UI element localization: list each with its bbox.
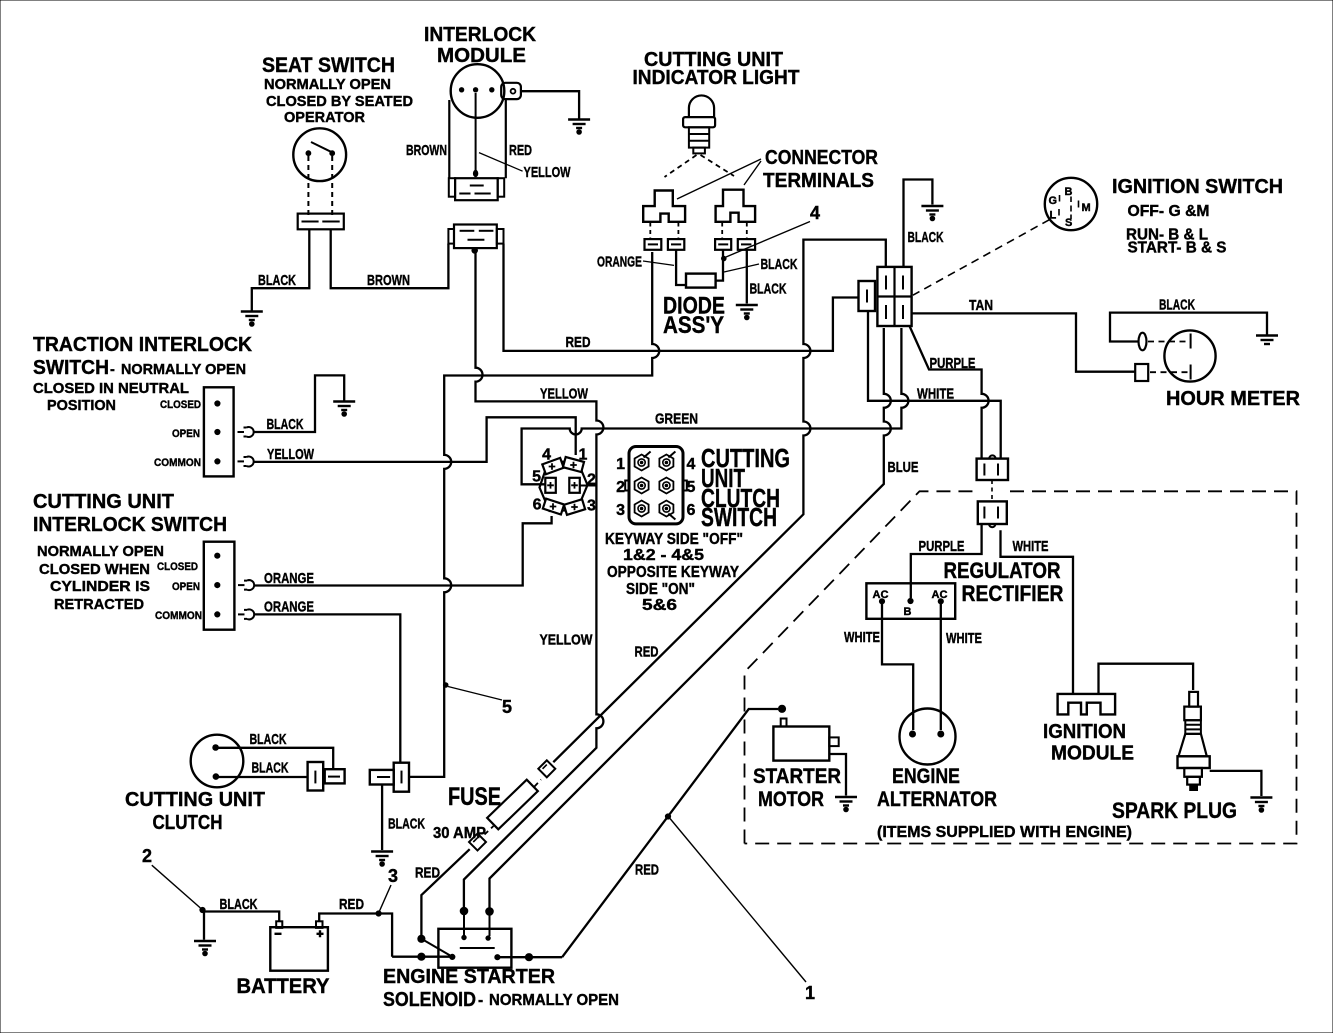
- ground ignition black: [921, 206, 943, 220]
- connector terminal callout lines: [677, 159, 761, 199]
- cutting interlock open terminal: [238, 584, 245, 586]
- wire brown seat to module: [331, 229, 449, 288]
- svg-text:CONNECTOR: CONNECTOR: [765, 146, 878, 169]
- svg-text:NORMALLY OPEN: NORMALLY OPEN: [37, 544, 164, 560]
- svg-text:RECTIFIER: RECTIFIER: [962, 581, 1064, 606]
- spark plug E1: [1189, 692, 1198, 707]
- svg-text:ENGINE STARTER: ENGINE STARTER: [383, 965, 555, 988]
- clutch switch pin 4: [659, 455, 673, 471]
- svg-text:BATTERY: BATTERY: [237, 974, 330, 998]
- svg-text:2: 2: [616, 479, 625, 496]
- svg-text:ENGINE: ENGINE: [892, 764, 960, 788]
- module yellow center lead: [475, 93, 477, 171]
- harness clutch connector tall: [394, 763, 409, 792]
- svg-text:1: 1: [616, 456, 625, 473]
- svg-text:NORMALLY OPEN: NORMALLY OPEN: [264, 77, 391, 93]
- wire black diode to ground: [746, 250, 748, 304]
- bulb dashed leads: [665, 155, 697, 177]
- svg-text:RED: RED: [339, 896, 364, 913]
- wire starter motor to ground: [829, 754, 846, 796]
- hex petal 3: [564, 499, 585, 515]
- module connector box upper: [455, 178, 498, 200]
- svg-text:ORANGE: ORANGE: [264, 570, 314, 587]
- svg-text:30 AMP: 30 AMP: [433, 825, 486, 842]
- wire white regulator right AC to alternator: [940, 604, 942, 730]
- svg-text:PURPLE: PURPLE: [930, 355, 976, 372]
- dashed callout ignition switch to connector: [913, 220, 1050, 296]
- svg-text:OPEN: OPEN: [172, 428, 200, 440]
- svg-text:INTERLOCK SWITCH: INTERLOCK SWITCH: [33, 513, 227, 536]
- svg-text:BLACK: BLACK: [388, 816, 425, 833]
- svg-text:(ITEMS SUPPLIED WITH ENGINE): (ITEMS SUPPLIED WITH ENGINE): [877, 824, 1132, 841]
- svg-text:CLOSED: CLOSED: [160, 399, 201, 411]
- svg-text:NORMALLY OPEN: NORMALLY OPEN: [121, 362, 246, 378]
- harness clutch connector small: [370, 770, 394, 785]
- traction interlock switch S1 body: [204, 387, 234, 476]
- svg-text:KEYWAY SIDE "OFF": KEYWAY SIDE "OFF": [605, 531, 743, 548]
- wire black harness connector to ground: [381, 785, 383, 851]
- dashed box items supplied with engine: [745, 491, 975, 843]
- hex petal 1: [563, 457, 584, 472]
- svg-text:BLACK: BLACK: [258, 272, 296, 289]
- svg-text:IGNITION SWITCH: IGNITION SWITCH: [1112, 175, 1283, 198]
- svg-text:BLACK: BLACK: [750, 281, 787, 298]
- pin box 1 orange: [645, 239, 662, 250]
- svg-text:INTERLOCK: INTERLOCK: [424, 24, 537, 46]
- wire green run: [522, 328, 909, 484]
- svg-text:CLOSED: CLOSED: [157, 561, 198, 573]
- ignition connector block: [877, 267, 911, 326]
- pin box 2: [668, 239, 684, 250]
- svg-text:RED: RED: [635, 644, 659, 661]
- svg-text:NORMALLY OPEN: NORMALLY OPEN: [489, 992, 619, 1009]
- diode assy D1: [686, 274, 716, 288]
- svg-text:SWITCH: SWITCH: [701, 502, 777, 532]
- svg-text:POSITION: POSITION: [47, 398, 116, 414]
- ground hour meter: [1256, 336, 1278, 345]
- wire yellow module run: [476, 253, 604, 480]
- ground battery: [194, 941, 216, 955]
- svg-text:CUTTING UNIT: CUTTING UNIT: [125, 788, 265, 811]
- ground interlock module: [568, 120, 590, 134]
- svg-text:BLACK: BLACK: [220, 896, 258, 913]
- wire white regulator left AC to alternator: [882, 604, 913, 730]
- svg-text:RED: RED: [509, 142, 532, 159]
- svg-text:YELLOW: YELLOW: [540, 386, 589, 403]
- wire spark plug to ground: [1210, 771, 1262, 796]
- svg-text:BROWN: BROWN: [406, 142, 447, 159]
- ground harness connector: [371, 852, 393, 866]
- clutch connector tall: [308, 762, 324, 791]
- wire black clutch upper: [218, 748, 333, 769]
- svg-text:G: G: [1049, 195, 1058, 207]
- svg-text:YELLOW: YELLOW: [267, 446, 315, 463]
- clutch switch pin 5: [659, 478, 673, 494]
- svg-text:WHITE: WHITE: [1013, 538, 1049, 555]
- indicator light bulb DS1: [689, 95, 714, 117]
- svg-text:WHITE: WHITE: [844, 629, 880, 646]
- svg-text:B: B: [1065, 186, 1073, 198]
- callout 3: [380, 885, 392, 911]
- svg-text:ORANGE: ORANGE: [597, 254, 642, 271]
- clutch switch pin 2: [635, 478, 649, 494]
- wire black clutch lower: [219, 776, 308, 778]
- svg-text:5: 5: [502, 697, 512, 717]
- wire black battery to ground: [204, 912, 279, 940]
- hour meter dashed links: [1148, 341, 1188, 343]
- engine connector lower half: [978, 501, 1007, 524]
- wire diode right leg: [716, 250, 723, 281]
- svg-text:GREEN: GREEN: [655, 411, 698, 428]
- svg-text:BLACK: BLACK: [252, 760, 289, 777]
- wire tan ignition to hour meter: [912, 313, 1135, 371]
- wire blue ignition to solenoid: [490, 328, 891, 908]
- wire yellow traction to clutch switch pin1: [253, 417, 576, 462]
- svg-text:REGULATOR: REGULATOR: [944, 558, 1061, 583]
- svg-text:FUSE: FUSE: [448, 783, 501, 811]
- svg-text:SWITCH: SWITCH: [33, 356, 109, 379]
- svg-text:-: -: [110, 362, 115, 378]
- svg-text:CLOSED IN NEUTRAL: CLOSED IN NEUTRAL: [33, 381, 189, 397]
- hour meter pin rect: [1135, 364, 1148, 381]
- hour meter pin oval: [1139, 333, 1147, 351]
- clutch switch pin 6: [659, 501, 673, 517]
- solenoid coil posts: [462, 935, 466, 939]
- svg-text:1: 1: [805, 983, 815, 1003]
- ground spark plug: [1250, 798, 1272, 812]
- svg-text:HOUR METER: HOUR METER: [1166, 387, 1300, 410]
- engine starter solenoid K1 box: [438, 929, 511, 968]
- wire orange diode run: [410, 252, 660, 777]
- seat switch connector: [298, 214, 344, 230]
- svg-text:L: L: [1050, 210, 1057, 222]
- wire white to ignition module: [1001, 530, 1074, 694]
- wire white ignition to engine connector: [868, 311, 1001, 459]
- svg-text:BLACK: BLACK: [761, 256, 798, 273]
- wire red fuse to ignition B: [553, 240, 886, 763]
- callout 2: [152, 865, 201, 908]
- solenoid right post wires: [495, 955, 500, 960]
- svg-text:3: 3: [388, 866, 398, 886]
- svg-text:RED: RED: [415, 865, 440, 882]
- hour meter M1 circle: [1164, 330, 1215, 381]
- wire purple to regulator B: [911, 524, 982, 598]
- svg-text:BLACK: BLACK: [1159, 297, 1195, 314]
- callout 4 to pin box 3: [722, 256, 727, 261]
- svg-text:ORANGE: ORANGE: [264, 599, 314, 616]
- callout 1 on red wire: [665, 814, 670, 819]
- ground starter motor: [835, 797, 857, 811]
- svg-text:BLACK: BLACK: [267, 416, 304, 433]
- svg-text:ALTERNATOR: ALTERNATOR: [877, 787, 997, 811]
- svg-text:SEAT SWITCH: SEAT SWITCH: [262, 54, 395, 77]
- svg-text:TERMINALS: TERMINALS: [763, 169, 874, 192]
- wire purple ignition to engine connector: [910, 326, 989, 459]
- svg-text:TRACTION INTERLOCK: TRACTION INTERLOCK: [33, 333, 252, 356]
- harness connector box below module: [454, 225, 497, 249]
- cutting unit interlock switch S2 body: [204, 542, 235, 630]
- ground seat switch: [241, 312, 263, 326]
- svg-text:3: 3: [587, 498, 596, 515]
- svg-text:BROWN: BROWN: [367, 272, 410, 289]
- svg-text:2: 2: [142, 846, 152, 866]
- regulator rectifier U2 box: [866, 583, 955, 619]
- fuse lead dashes: [485, 826, 494, 835]
- clutch connector small: [325, 769, 345, 783]
- svg-text:CLOSED BY SEATED: CLOSED BY SEATED: [266, 94, 413, 110]
- traction open terminal: [238, 431, 245, 433]
- svg-text:1&2 - 4&5: 1&2 - 4&5: [623, 547, 704, 564]
- wire black ignition block to ground: [904, 180, 933, 268]
- svg-text:OFF- G &M: OFF- G &M: [1128, 203, 1210, 220]
- svg-text:STARTER: STARTER: [753, 764, 841, 788]
- clutch switch side tabs: [625, 481, 629, 491]
- pin box 3: [715, 239, 731, 250]
- svg-text:COMMON: COMMON: [154, 457, 201, 469]
- svg-text:CLOSED WHEN: CLOSED WHEN: [39, 562, 150, 578]
- svg-text:RED: RED: [635, 862, 659, 879]
- hex petal 2: [569, 478, 580, 493]
- engine alternator G1 circle: [900, 709, 956, 765]
- callout 5 on orange wire: [443, 683, 448, 688]
- wire orange open to clutch switch pin6: [254, 516, 552, 586]
- svg-text:WHITE: WHITE: [946, 630, 982, 647]
- wire module tab to ground: [521, 91, 579, 118]
- wire red battery to solenoid: [319, 914, 392, 957]
- cutting interlock common terminal: [238, 613, 245, 615]
- svg-text:1: 1: [579, 447, 588, 464]
- terminal dashed stubs: [649, 223, 651, 239]
- svg-text:OPERATOR: OPERATOR: [284, 110, 366, 126]
- svg-text:BLACK: BLACK: [908, 229, 944, 246]
- svg-text:RED: RED: [566, 334, 591, 351]
- fuse terminal diamond lower: [469, 834, 486, 851]
- hex petal 6: [543, 499, 564, 515]
- svg-text:CUTTING UNIT: CUTTING UNIT: [33, 490, 174, 513]
- svg-text:6: 6: [533, 497, 542, 514]
- fuse terminal diamond upper: [538, 760, 555, 777]
- svg-text:OPEN: OPEN: [172, 581, 200, 593]
- wire clutch plug pin2 to yellow: [580, 485, 597, 487]
- wire red module run: [504, 244, 859, 351]
- clutch switch pin 1: [635, 455, 649, 471]
- svg-text:TAN: TAN: [969, 297, 993, 314]
- ignition switch S3 circle: [1045, 178, 1097, 230]
- svg-text:RETRACTED: RETRACTED: [54, 597, 144, 613]
- svg-text:4: 4: [542, 447, 551, 464]
- battery BT1 box: [270, 927, 328, 971]
- wire red solenoid to starter motor: [562, 709, 778, 957]
- starter motor M2 body: [773, 727, 829, 761]
- ground traction switch: [333, 402, 355, 416]
- starter motor terminal dot: [778, 705, 785, 712]
- svg-text:M: M: [1082, 202, 1091, 214]
- svg-text:BLACK: BLACK: [250, 731, 287, 748]
- interlock module tab: [501, 83, 521, 99]
- seat switch SW1: [293, 128, 346, 181]
- wire diode left leg: [676, 250, 686, 285]
- ignition module U3 body: [1058, 694, 1116, 715]
- svg-text:SIDE "ON": SIDE "ON": [626, 581, 695, 598]
- connector terminal right: [716, 190, 756, 222]
- svg-text:-: -: [478, 992, 483, 1009]
- svg-text:3: 3: [616, 502, 625, 519]
- svg-text:CLUTCH: CLUTCH: [153, 811, 223, 834]
- svg-text:6: 6: [687, 502, 696, 519]
- svg-text:B: B: [904, 606, 912, 618]
- interlock module body: [448, 100, 450, 178]
- svg-text:MOTOR: MOTOR: [758, 787, 824, 811]
- svg-text:5: 5: [687, 479, 696, 496]
- cutting unit clutch L1 circle: [191, 735, 244, 788]
- svg-text:PURPLE: PURPLE: [919, 538, 965, 555]
- clutch switch plug hex body: [540, 461, 588, 511]
- traction common terminal: [238, 460, 245, 462]
- svg-text:IGNITION: IGNITION: [1043, 720, 1126, 743]
- svg-text:WHITE: WHITE: [917, 386, 954, 403]
- svg-text:5&6: 5&6: [642, 597, 677, 614]
- svg-text:CYLINDER IS: CYLINDER IS: [50, 579, 150, 595]
- ignition switch ticks: [1070, 197, 1072, 203]
- svg-text:4: 4: [810, 203, 820, 223]
- svg-text:INDICATOR LIGHT: INDICATOR LIGHT: [633, 66, 800, 89]
- svg-text:5: 5: [532, 469, 541, 486]
- svg-text:ASS'Y: ASS'Y: [663, 312, 724, 339]
- engine connector dashed link: [991, 480, 993, 501]
- svg-text:OPPOSITE KEYWAY: OPPOSITE KEYWAY: [607, 564, 740, 581]
- svg-text:START- B & S: START- B & S: [1128, 240, 1227, 257]
- connector terminal left: [643, 191, 685, 222]
- pin box 4 black: [738, 239, 755, 250]
- fuse F1 body: [487, 780, 538, 830]
- wire black seat switch to ground: [252, 229, 309, 311]
- wire orange common to clutch connector: [254, 614, 401, 762]
- svg-text:YELLOW: YELLOW: [524, 164, 572, 181]
- ground diode: [736, 305, 758, 319]
- seat switch dashed leads: [307, 156, 309, 216]
- svg-text:4: 4: [687, 456, 696, 473]
- wire black hour meter to ground: [1110, 313, 1267, 342]
- cutting unit clutch switch body: [629, 447, 683, 524]
- svg-text:SOLENOID: SOLENOID: [383, 988, 476, 1011]
- svg-text:YELLOW: YELLOW: [540, 632, 594, 649]
- svg-text:SPARK PLUG: SPARK PLUG: [1112, 798, 1237, 823]
- interlock module U1 circle: [451, 64, 505, 118]
- wire red battery feed riser: [421, 849, 469, 939]
- hex petal 4: [542, 458, 563, 474]
- engine connector upper half: [977, 459, 1008, 480]
- svg-text:COMMON: COMMON: [155, 610, 202, 622]
- starter motor tab: [829, 737, 838, 746]
- solenoid left post wires: [418, 935, 425, 942]
- wire black traction to ground: [253, 375, 344, 432]
- hex petal 5: [545, 478, 556, 493]
- ignition connector single cell: [859, 281, 876, 311]
- svg-text:MODULE: MODULE: [1051, 742, 1134, 765]
- wire white module jumper to spark plug: [1099, 664, 1194, 694]
- svg-text:BLUE: BLUE: [888, 459, 919, 476]
- clutch switch pin 3: [635, 501, 649, 517]
